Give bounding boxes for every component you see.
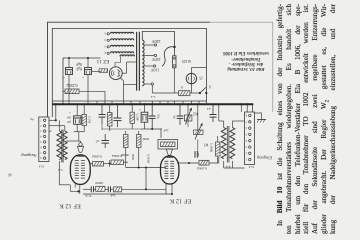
junction dot C11 — [151, 103, 153, 105]
svg-text:2: 2 — [245, 151, 247, 154]
output connector socket — [39, 117, 49, 162]
label C13 — [85, 193, 91, 198]
junction dot ground — [252, 103, 254, 105]
svg-text:10000: 10000 — [95, 181, 104, 185]
transformer T1 filament winding 4 — [104, 51, 134, 54]
resistor R5 — [124, 131, 129, 152]
svg-text:0,1M: 0,1M — [86, 116, 91, 123]
bus up-tick C2 — [87, 101, 89, 104]
coupling capacitor C7 — [108, 186, 113, 192]
label R4 — [134, 114, 139, 121]
resistor R8 — [111, 160, 128, 165]
fuse St 1,25 — [173, 56, 176, 93]
capacitor C11 — [149, 104, 161, 129]
rectifier tube EZ11 — [109, 67, 122, 80]
svg-text:8: 8 — [40, 156, 42, 159]
svg-text:St 4: St 4 — [249, 165, 255, 169]
body text column (rotated 90ccw) — [276, 0, 340, 238]
wire EZ11 cathode down — [120, 78, 137, 101]
label R6 — [142, 137, 149, 141]
svg-text:6: 6 — [245, 126, 247, 129]
svg-text:0,1MΩ: 0,1MΩ — [197, 165, 207, 170]
wire lamp bottom — [190, 84, 192, 93]
junction dot C10 — [143, 103, 145, 105]
label 3o smudge — [163, 128, 168, 132]
wire T3 bottoms — [224, 160, 245, 168]
junction dot C2 rail — [87, 57, 89, 59]
mains cord pigtail — [162, 47, 174, 67]
tube V1 — [70, 155, 90, 192]
transformer T1 filament winding 2 — [104, 38, 134, 41]
figure border frame (open at bottom) — [48, 22, 273, 117]
svg-text:240V: 240V — [151, 39, 160, 44]
label St125 — [182, 59, 191, 63]
svg-text:EF 12 K: EF 12 K — [59, 202, 81, 209]
label 80uF — [67, 110, 71, 124]
primary bottom tap — [144, 83, 154, 93]
svg-text:4µ: 4µ — [30, 117, 34, 121]
switch S — [199, 87, 208, 94]
label under transformer — [150, 95, 155, 99]
label R13 — [110, 193, 116, 197]
svg-text:4-S: 4-S — [226, 164, 231, 168]
wire primary bottom row — [152, 92, 178, 94]
wire tap 110V — [144, 65, 156, 67]
label EZ 11 — [96, 58, 109, 64]
svg-text:3: 3 — [245, 145, 247, 148]
svg-text:3000: 3000 — [142, 137, 149, 141]
svg-text:St125: St125 — [182, 59, 191, 63]
figure caption (upside down) — [219, 49, 273, 71]
wire W2 top lead — [187, 103, 189, 115]
wire EZ11 anode to winding — [122, 62, 136, 73]
svg-text:0,5MΩ: 0,5MΩ — [112, 153, 122, 158]
output connector pins — [40, 118, 46, 159]
svg-text:1: 1 — [40, 118, 42, 121]
svg-text:µ4: µ4 — [207, 107, 211, 111]
wire V2 anode — [177, 157, 219, 164]
svg-text:3: 3 — [104, 45, 106, 48]
fuse bottom row — [179, 91, 200, 96]
junction dot C4 — [101, 103, 103, 105]
label St 4 — [249, 165, 255, 169]
wire W2 down — [188, 121, 198, 152]
wire W1 top lead — [197, 103, 199, 130]
svg-text:L-4: L-4 — [150, 95, 155, 99]
junction dot C9 — [212, 103, 214, 105]
junction dot R4 — [131, 103, 133, 105]
svg-text:4: 4 — [245, 139, 247, 142]
wire V1 bottom — [70, 185, 80, 194]
label Ausgang — [21, 153, 38, 158]
svg-text:5-4: 5-4 — [58, 168, 63, 172]
junction dot mains — [173, 46, 175, 48]
bus up-tick EZ11 — [105, 101, 174, 104]
bus left drop — [49, 103, 57, 121]
label EF 12 K left — [59, 202, 81, 209]
label R7 — [92, 153, 102, 158]
resistor 0,2M PSU — [63, 89, 105, 101]
label 0,5M smudge — [146, 154, 151, 164]
svg-text:80: 80 — [67, 116, 71, 120]
svg-text:0000: 0000 — [131, 154, 135, 161]
label fuse 1f — [180, 85, 184, 89]
svg-text:+: + — [82, 75, 84, 79]
svg-text:µF: µF — [67, 120, 71, 124]
svg-text:7: 7 — [40, 151, 42, 154]
svg-text:4µ: 4µ — [173, 115, 177, 119]
wire T2 secondary down — [59, 161, 70, 185]
label R12 — [209, 143, 214, 153]
electrolytic capacitor C2 — [82, 58, 92, 101]
label W2 — [193, 112, 198, 116]
wire T3 to connector — [219, 103, 245, 121]
wire tap 240V — [144, 44, 157, 46]
wire tap 220V — [144, 54, 157, 56]
potentiometer W2 — [184, 108, 192, 125]
svg-text:EF 12 K: EF 12 K — [169, 198, 191, 205]
bus up-tick C1 — [68, 101, 70, 104]
wire T3 tops — [218, 103, 233, 127]
capacitor C6 — [95, 134, 109, 148]
chassis ground symbol — [253, 104, 267, 122]
capacitor V2 cathode — [195, 151, 199, 158]
svg-text:3: 3 — [40, 129, 42, 132]
label C5 — [109, 113, 113, 117]
svg-text:+: + — [69, 110, 71, 114]
EZ11 heater bar — [99, 69, 108, 73]
bus comb ticks — [97, 101, 199, 104]
wire lamp top — [191, 68, 206, 74]
svg-text:0,2MΩ: 0,2MΩ — [66, 82, 77, 87]
svg-text:W1: W1 — [203, 143, 208, 147]
power supply unit enclosure box — [52, 28, 206, 117]
junction dot R2 — [83, 103, 85, 105]
input connector pins — [245, 114, 251, 161]
svg-text:0,5MΩ: 0,5MΩ — [146, 154, 151, 164]
svg-text:2µF: 2µF — [163, 128, 168, 132]
label 30000b — [131, 154, 135, 161]
svg-text:0: 0 — [104, 32, 106, 35]
resistor R7 — [91, 162, 110, 167]
bus up-tick lamp — [190, 101, 192, 104]
filter cap rail — [63, 58, 101, 104]
wire V2 bottom — [166, 184, 173, 195]
resistor R4 — [130, 104, 134, 129]
svg-text:+: + — [63, 75, 65, 79]
junction dot 80uF — [76, 103, 78, 105]
label R5 — [121, 153, 130, 157]
cathode wire — [83, 193, 172, 195]
svg-text:W2: W2 — [193, 112, 198, 116]
capacitor C5 — [114, 104, 122, 127]
wire R2 join — [74, 132, 85, 141]
wire T2 pin links — [49, 126, 65, 131]
svg-text:St 2: St 2 — [39, 165, 45, 169]
capacitor C12 — [173, 104, 184, 125]
resistor R13 — [113, 187, 166, 192]
transformer T1 filament winding 1 — [104, 32, 134, 35]
svg-text:1: 1 — [245, 158, 247, 161]
wire mid link — [102, 126, 153, 130]
electrolytic capacitor C10 — [139, 104, 148, 129]
grid resistor box V2 — [158, 140, 178, 150]
svg-text:8µF: 8µF — [76, 62, 82, 66]
svg-text:5: 5 — [40, 140, 42, 143]
label 4u output — [30, 117, 34, 121]
svg-text:8µF: 8µF — [76, 67, 82, 71]
triode V1 grid cap — [66, 141, 84, 152]
label 0,2MΩ — [66, 82, 77, 87]
transformer T1 primary winding — [142, 40, 144, 86]
svg-text:50µ: 50µ — [156, 114, 160, 119]
capacitor C4 — [99, 104, 106, 130]
label R8 — [112, 153, 122, 158]
input connector socket — [245, 112, 255, 165]
svg-text:5: 5 — [245, 132, 247, 135]
resistor R12 — [216, 136, 221, 163]
bus comb dots — [96, 103, 184, 105]
svg-text:0: 0 — [104, 51, 106, 54]
output transformer T2 — [57, 130, 67, 163]
junction dot C12 — [179, 103, 181, 105]
svg-text:46: 46 — [7, 172, 12, 177]
label T3 — [226, 164, 231, 168]
junction link wires — [126, 152, 166, 190]
electrolytic capacitor 80uF — [74, 104, 81, 131]
resistor R9 — [96, 186, 109, 191]
svg-text:220V: 220V — [151, 57, 160, 62]
pilot lamp — [186, 73, 196, 83]
label R9 10000 — [95, 181, 104, 185]
main bus rail — [52, 103, 252, 105]
tube V2 — [161, 156, 179, 184]
label 2x8uF — [76, 62, 82, 71]
resistor R3 — [108, 104, 113, 131]
svg-text:0,2M: 0,2M — [134, 114, 139, 121]
svg-text:1f: 1f — [180, 85, 184, 89]
svg-text:S: S — [209, 84, 211, 88]
label W1 — [203, 143, 208, 147]
bus up-tick box right — [206, 101, 208, 104]
svg-text:7: 7 — [245, 120, 247, 123]
svg-text:Ausgang: Ausgang — [21, 153, 38, 158]
label 110V — [151, 67, 160, 72]
label S — [209, 84, 211, 88]
resistor R2 — [82, 104, 86, 131]
wire mains feed top — [142, 32, 174, 56]
junction mid — [109, 160, 111, 167]
svg-text:0: 0 — [104, 38, 106, 41]
svg-text:0,1µ: 0,1µ — [85, 193, 91, 198]
potentiometer W1 — [194, 123, 204, 139]
svg-text:4µ: 4µ — [109, 113, 113, 117]
wire EZ11 heater taps — [92, 56, 121, 71]
svg-text:6: 6 — [40, 145, 42, 148]
junction dot C5 — [116, 103, 118, 105]
grid cap funnel V2 — [166, 149, 172, 155]
label anode 0,1M — [197, 165, 207, 170]
label EF 12 K right — [169, 198, 191, 205]
capacitor C9 — [207, 104, 217, 122]
margin mark — [7, 172, 12, 177]
label St 2 — [39, 165, 45, 169]
electrolytic capacitor C1 — [63, 58, 73, 101]
input transformer T3 — [221, 126, 235, 163]
label 240V — [151, 39, 160, 44]
label T2 winding — [58, 168, 63, 172]
junction dot C1 rail — [68, 57, 70, 59]
anode resistor 0,1M — [199, 160, 209, 165]
capacitor C13 — [83, 186, 96, 192]
svg-text:2: 2 — [40, 124, 42, 127]
transformer T1 filament winding 3 — [104, 45, 134, 48]
label R2 — [86, 116, 91, 123]
svg-text:EZ 11: EZ 11 — [96, 58, 109, 64]
label 220V — [151, 57, 160, 62]
label 15 — [199, 76, 203, 80]
svg-text:4: 4 — [40, 135, 42, 138]
svg-text:µ5: µ5 — [95, 139, 99, 143]
wire T2 primary top — [58, 120, 60, 131]
wire C10 C11 join — [141, 129, 162, 138]
label Eingang — [256, 155, 273, 160]
transformer T1 core — [137, 32, 140, 91]
resistor R6 — [137, 131, 142, 152]
svg-text:Eingang: Eingang — [256, 155, 273, 160]
svg-text:0,3MΩ: 0,3MΩ — [92, 153, 102, 158]
wire connector top — [246, 103, 248, 112]
svg-text:+: + — [139, 107, 141, 111]
svg-text:8: 8 — [245, 114, 247, 117]
transformer T1 rectifier heater winding — [120, 55, 135, 56]
svg-text:15: 15 — [199, 76, 203, 80]
svg-text:110V: 110V — [151, 67, 160, 72]
